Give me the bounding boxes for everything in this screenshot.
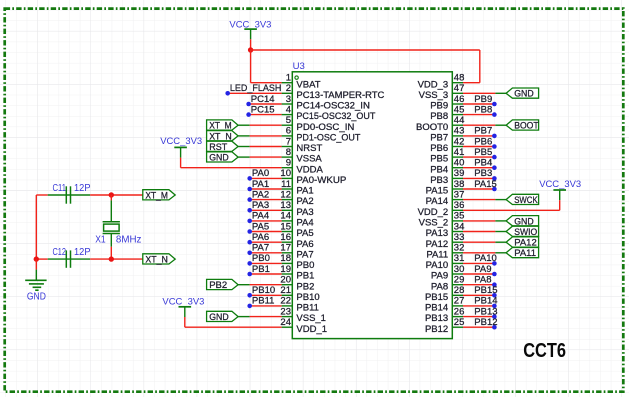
svg-text:43: 43 xyxy=(454,126,465,137)
U3 pin 23 VSS_1 xyxy=(280,306,326,324)
svg-text:PB10: PB10 xyxy=(252,285,275,296)
svg-text:PA9: PA9 xyxy=(474,264,491,275)
svg-text:15: 15 xyxy=(280,221,291,232)
svg-text:PA4: PA4 xyxy=(296,218,313,229)
svg-text:PA10: PA10 xyxy=(474,253,497,264)
svg-text:7: 7 xyxy=(286,136,291,147)
svg-text:VCC_3V3: VCC_3V3 xyxy=(160,136,202,147)
net label PA3 (wire to U3) xyxy=(247,200,281,213)
wire port to U3 xyxy=(238,146,282,148)
svg-text:PA9: PA9 xyxy=(431,271,448,282)
svg-text:28: 28 xyxy=(454,285,465,296)
U3 pin 31 PA10 xyxy=(426,253,465,271)
port GND (VSS_2) xyxy=(506,216,538,228)
svg-text:48: 48 xyxy=(454,73,465,84)
svg-text:PA0-WKUP: PA0-WKUP xyxy=(296,175,346,186)
junction ground node xyxy=(34,256,39,261)
wire left vertical C11 to C12 xyxy=(35,195,37,259)
svg-text:PB7: PB7 xyxy=(474,126,492,137)
svg-text:PB5: PB5 xyxy=(430,154,448,165)
crystal X1 xyxy=(103,195,120,259)
svg-text:PA2: PA2 xyxy=(252,189,269,200)
net label PA15 (wire from U3) xyxy=(463,179,497,192)
svg-text:12P: 12P xyxy=(74,183,91,194)
svg-text:47: 47 xyxy=(454,83,465,94)
capacitor C11 xyxy=(48,186,90,203)
svg-text:PD0-OSC_IN: PD0-OSC_IN xyxy=(296,122,354,133)
svg-text:VDD_1: VDD_1 xyxy=(296,324,327,335)
svg-text:PB3: PB3 xyxy=(430,175,448,186)
svg-text:30: 30 xyxy=(454,264,465,275)
svg-text:42: 42 xyxy=(454,136,465,147)
svg-text:PB14: PB14 xyxy=(474,296,497,307)
svg-text:6: 6 xyxy=(286,126,291,137)
port PA11 xyxy=(506,248,538,260)
svg-text:LED_FLASH: LED_FLASH xyxy=(230,83,282,94)
wire C11 to XT_M junction xyxy=(90,194,143,196)
power VCC_3V3 xyxy=(539,179,581,200)
svg-text:PD1-OSC_OUT: PD1-OSC_OUT xyxy=(296,133,360,144)
svg-text:23: 23 xyxy=(280,306,291,317)
svg-text:PB7: PB7 xyxy=(430,133,448,144)
svg-text:PA2: PA2 xyxy=(296,196,313,207)
port GND (VSS_1) xyxy=(207,311,239,323)
svg-text:PC14-OSC32_IN: PC14-OSC32_IN xyxy=(296,101,370,112)
port GND (VSS_3) xyxy=(506,88,538,100)
U3 pin 19 PB1 xyxy=(280,264,314,282)
svg-text:X1: X1 xyxy=(95,234,106,245)
svg-text:29: 29 xyxy=(454,275,465,286)
svg-text:CCT6: CCT6 xyxy=(523,338,566,361)
U3 pin 39 PB3 xyxy=(430,168,464,186)
net label PB4 (wire from U3) xyxy=(463,158,497,171)
wire U3 to port xyxy=(463,199,506,201)
port XT_M xyxy=(207,120,239,132)
net label PB11 (wire to U3) xyxy=(247,296,281,309)
U3 pin 4 PC15-OSC32_OUT xyxy=(282,104,376,122)
U3 pin 16 PA6 xyxy=(280,232,313,250)
svg-text:VDD_2: VDD_2 xyxy=(418,207,449,218)
svg-text:PA11: PA11 xyxy=(514,248,536,259)
svg-text:PB1: PB1 xyxy=(252,264,270,275)
U3 pin 2 PC13-TAMPER-RTC xyxy=(282,83,385,101)
net label PB9 (wire from U3) xyxy=(463,94,497,106)
net label PB0 (wire to U3) xyxy=(247,253,281,266)
U3 pin 44 BOOT0 xyxy=(416,115,464,133)
port PB2 xyxy=(207,279,239,291)
svg-text:8: 8 xyxy=(286,147,291,158)
U3 pin 46 PB9 xyxy=(430,94,464,112)
wire to pin 1 stub xyxy=(251,82,282,84)
net label LED_FLASH (wire to U3) xyxy=(225,83,281,96)
svg-text:46: 46 xyxy=(454,94,465,105)
net label PB5 (wire from U3) xyxy=(463,147,497,160)
wire left to C12 xyxy=(36,258,47,260)
svg-text:U3: U3 xyxy=(293,61,305,72)
U3 pin 32 PA11 xyxy=(426,243,464,261)
svg-text:PA10: PA10 xyxy=(426,260,449,271)
svg-text:PA3: PA3 xyxy=(296,207,313,218)
U3 pin 38 PA15 xyxy=(426,179,465,197)
svg-text:PB0: PB0 xyxy=(252,253,270,264)
U3 pin 8 VSSA xyxy=(282,147,323,165)
U3 pin 36 VDD_2 xyxy=(418,200,465,218)
net label PA9 (wire from U3) xyxy=(463,264,497,277)
svg-text:PA7: PA7 xyxy=(252,243,269,254)
net label PB13 (wire from U3) xyxy=(463,306,498,319)
svg-text:20: 20 xyxy=(280,275,291,286)
svg-text:1: 1 xyxy=(286,73,291,84)
ground GND symbol xyxy=(25,259,46,290)
svg-text:PB13: PB13 xyxy=(425,313,448,324)
svg-text:PB5: PB5 xyxy=(474,147,492,158)
svg-text:PB1: PB1 xyxy=(296,271,314,282)
svg-text:PB13: PB13 xyxy=(474,306,497,317)
U3 pin 24 VDD_1 xyxy=(280,317,327,335)
svg-text:PA8: PA8 xyxy=(431,281,448,292)
net label PC14 (wire to U3) xyxy=(246,94,281,106)
wire U3 to port xyxy=(463,92,506,94)
U3 pin 48 VDD_3 xyxy=(418,73,465,91)
U3 pin 33 PA12 xyxy=(426,232,465,250)
svg-text:C12: C12 xyxy=(53,247,67,258)
U3 pin 42 PB6 xyxy=(430,136,464,154)
U3 pin 35 VSS_2 xyxy=(419,211,465,229)
junction bottom of X1 xyxy=(109,256,114,261)
port PA12 xyxy=(506,237,538,249)
svg-text:XT_N: XT_N xyxy=(145,255,168,266)
svg-text:PB9: PB9 xyxy=(474,94,492,105)
svg-text:PB2: PB2 xyxy=(296,281,314,292)
svg-text:VCC_3V3: VCC_3V3 xyxy=(162,297,204,308)
svg-text:45: 45 xyxy=(454,104,465,115)
net label PA8 (wire from U3) xyxy=(463,275,497,288)
svg-text:PB12: PB12 xyxy=(425,324,448,335)
svg-text:PA1: PA1 xyxy=(252,179,269,190)
svg-text:PC15: PC15 xyxy=(251,104,275,115)
port SWCK xyxy=(506,194,538,206)
port GND (VSSA) xyxy=(207,152,239,164)
svg-text:32: 32 xyxy=(454,243,465,254)
capacitor C12 xyxy=(48,250,90,267)
junction top of X1 xyxy=(109,192,114,197)
U3 pin 26 PB13 xyxy=(425,306,464,324)
wire port to U3 xyxy=(238,316,282,318)
junction VCC_3V3 xyxy=(248,47,253,52)
U3 pin 25 PB12 xyxy=(425,317,464,335)
svg-text:17: 17 xyxy=(280,243,291,254)
svg-text:12P: 12P xyxy=(74,247,91,258)
svg-text:8MHz: 8MHz xyxy=(116,234,141,245)
svg-text:PA12: PA12 xyxy=(426,239,449,250)
svg-text:GND: GND xyxy=(209,153,229,164)
svg-text:VBAT: VBAT xyxy=(296,79,320,90)
svg-text:PA7: PA7 xyxy=(296,249,313,260)
svg-text:PC15-OSC32_OUT: PC15-OSC32_OUT xyxy=(296,111,375,122)
U3 pin 41 PB5 xyxy=(430,147,464,165)
svg-text:PB11: PB11 xyxy=(296,303,319,314)
svg-text:12: 12 xyxy=(280,189,291,200)
svg-text:PB4: PB4 xyxy=(430,164,448,175)
svg-text:VSS_1: VSS_1 xyxy=(296,313,326,324)
U3 pin 15 PA5 xyxy=(280,221,313,239)
net label PB10 (wire to U3) xyxy=(247,285,281,298)
wire U3 to port xyxy=(463,241,506,243)
svg-text:VDDA: VDDA xyxy=(296,164,323,175)
net label PA0 (wire to U3) xyxy=(247,168,281,181)
net label PA5 (wire to U3) xyxy=(247,221,281,234)
U3 pin 14 PA4 xyxy=(280,211,313,229)
svg-text:PB4: PB4 xyxy=(474,158,492,169)
U3 pin 20 PB2 xyxy=(280,275,314,293)
U3 pin 27 PB14 xyxy=(425,296,464,314)
port XT_M (crystal) xyxy=(143,190,175,202)
U3 pin 13 PA3 xyxy=(280,200,313,218)
wire U3 to port xyxy=(463,220,506,222)
svg-text:25: 25 xyxy=(454,317,465,328)
svg-text:PA1: PA1 xyxy=(296,186,313,197)
wire to pin 48 stub xyxy=(463,82,480,84)
net label PC15 (wire to U3) xyxy=(246,104,281,116)
svg-text:PB9: PB9 xyxy=(430,101,448,112)
svg-text:21: 21 xyxy=(280,285,291,296)
svg-text:PA14: PA14 xyxy=(426,196,449,207)
svg-text:2: 2 xyxy=(286,83,291,94)
svg-text:27: 27 xyxy=(454,296,465,307)
net label PB8 (wire from U3) xyxy=(463,104,497,116)
U3 pin 47 VSS_3 xyxy=(419,83,465,101)
svg-text:34: 34 xyxy=(454,221,465,232)
power VCC_3V3 xyxy=(229,20,271,40)
svg-text:PB11: PB11 xyxy=(252,296,275,307)
svg-text:14: 14 xyxy=(280,211,291,222)
wire down to pin 1 xyxy=(250,50,252,83)
svg-text:39: 39 xyxy=(454,168,465,179)
svg-text:VCC_3V3: VCC_3V3 xyxy=(539,179,581,190)
U3 pin 34 PA13 xyxy=(426,221,465,239)
svg-text:PB3: PB3 xyxy=(474,168,492,179)
svg-text:PB15: PB15 xyxy=(474,285,497,296)
X1 designator and value 8MHz xyxy=(95,234,141,245)
svg-text:PB12: PB12 xyxy=(474,317,497,328)
net label PA7 (wire to U3) xyxy=(247,243,281,256)
svg-text:18: 18 xyxy=(280,253,291,264)
svg-text:40: 40 xyxy=(454,158,465,169)
svg-text:PA13: PA13 xyxy=(426,228,449,239)
svg-text:BOOT: BOOT xyxy=(514,121,539,132)
svg-text:PB6: PB6 xyxy=(474,136,492,147)
wire VCC_3V3 top horizontal xyxy=(251,49,480,51)
svg-text:PB0: PB0 xyxy=(296,260,314,271)
wire port to U3 xyxy=(238,284,282,286)
svg-text:VSS_2: VSS_2 xyxy=(419,218,449,229)
svg-text:9: 9 xyxy=(286,158,291,169)
svg-text:16: 16 xyxy=(280,232,291,243)
wire VCC_3V3 to VDD_1 pin 24 xyxy=(185,317,282,327)
net label PA6 (wire to U3) xyxy=(247,232,281,245)
U3 pin 6 PD1-OSC_OUT xyxy=(282,126,361,144)
C12 designator and value 12P xyxy=(53,247,91,258)
svg-text:SWCK: SWCK xyxy=(514,195,538,206)
C11 designator and value 12P xyxy=(53,183,91,194)
U3 pin 30 PA9 xyxy=(431,264,464,282)
svg-text:26: 26 xyxy=(454,306,465,317)
port XT_N (crystal) xyxy=(143,254,175,266)
net label PA10 (wire from U3) xyxy=(463,253,497,266)
svg-text:VSSA: VSSA xyxy=(296,154,322,165)
svg-text:PC13-TAMPER-RTC: PC13-TAMPER-RTC xyxy=(296,90,384,101)
svg-text:22: 22 xyxy=(280,296,291,307)
svg-text:PB6: PB6 xyxy=(430,143,448,154)
svg-text:GND: GND xyxy=(514,89,534,100)
svg-text:PB14: PB14 xyxy=(425,303,448,314)
svg-text:GND: GND xyxy=(209,312,229,323)
svg-text:BOOT0: BOOT0 xyxy=(416,122,448,133)
svg-text:PB8: PB8 xyxy=(430,111,448,122)
svg-text:44: 44 xyxy=(454,115,465,126)
U3 pin 9 VDDA xyxy=(282,158,324,176)
net label PA4 (wire to U3) xyxy=(247,211,281,224)
U3 pin 37 PA14 xyxy=(426,189,465,207)
svg-text:PA4: PA4 xyxy=(252,211,269,222)
svg-text:33: 33 xyxy=(454,232,465,243)
svg-text:XT_M: XT_M xyxy=(145,190,168,201)
U3 pin 11 PA1 xyxy=(281,179,314,197)
svg-text:PA5: PA5 xyxy=(296,228,313,239)
net label PB1 (wire to U3) xyxy=(247,264,281,277)
svg-text:PB2: PB2 xyxy=(209,280,227,291)
wire VCC_3V3 to VDDA pin 9 xyxy=(181,158,282,168)
svg-text:35: 35 xyxy=(454,211,465,222)
U3 pin 1 VBAT xyxy=(282,73,321,91)
svg-text:VDD_3: VDD_3 xyxy=(418,79,449,90)
svg-text:38: 38 xyxy=(454,179,465,190)
net label PB6 (wire from U3) xyxy=(463,136,497,149)
wire U3 to port xyxy=(463,231,506,233)
svg-text:41: 41 xyxy=(454,147,465,158)
svg-text:5: 5 xyxy=(286,115,291,126)
svg-text:PB8: PB8 xyxy=(474,104,492,115)
svg-text:13: 13 xyxy=(280,200,291,211)
U3 pin 28 PB15 xyxy=(425,285,464,303)
wire VCC_3V3 stem xyxy=(250,39,252,50)
U3 pin 5 PD0-OSC_IN xyxy=(282,115,355,133)
svg-text:19: 19 xyxy=(280,264,291,275)
wire C12 to XT_N junction xyxy=(90,258,143,260)
port SWIO xyxy=(506,226,538,238)
U3 pin 3 PC14-OSC32_IN xyxy=(282,94,370,112)
IC U3 xyxy=(292,72,452,339)
U3 pin 22 PB11 xyxy=(280,296,319,314)
U3 pin 45 PB8 xyxy=(430,104,464,122)
net label PB15 (wire from U3) xyxy=(463,285,498,298)
svg-text:PC14: PC14 xyxy=(251,94,275,105)
port BOOT xyxy=(506,120,539,132)
wire port to U3 xyxy=(238,124,282,126)
U3 pin 10 PA0-WKUP xyxy=(280,168,346,186)
wire down to pin 48 xyxy=(479,50,481,83)
U3 pin 18 PB0 xyxy=(280,253,314,271)
wire left to C11 xyxy=(36,194,47,196)
U3 pin 21 PB10 xyxy=(280,285,319,303)
svg-text:PA0: PA0 xyxy=(252,168,269,179)
svg-text:PA11: PA11 xyxy=(426,249,448,260)
port RST xyxy=(207,141,239,153)
port XT_N xyxy=(207,131,239,143)
svg-text:36: 36 xyxy=(454,200,465,211)
U3 pin 40 PB4 xyxy=(430,158,464,176)
U3 pin 29 PA8 xyxy=(431,275,464,293)
power VCC_3V3 xyxy=(160,136,202,157)
net label PB3 (wire from U3) xyxy=(463,168,497,181)
svg-text:VSS_3: VSS_3 xyxy=(419,90,449,101)
svg-text:PA3: PA3 xyxy=(252,200,269,211)
svg-text:C11: C11 xyxy=(53,183,67,194)
wire VCC_3V3 to VDD_2 pin 36 xyxy=(463,200,560,210)
svg-text:PB10: PB10 xyxy=(296,292,319,303)
svg-text:PA15: PA15 xyxy=(426,186,449,197)
svg-text:31: 31 xyxy=(454,253,465,264)
svg-text:37: 37 xyxy=(454,189,465,200)
svg-text:PA6: PA6 xyxy=(296,239,313,250)
svg-text:24: 24 xyxy=(280,317,291,328)
net label PA1 (wire to U3) xyxy=(247,179,281,192)
net label PB14 (wire from U3) xyxy=(463,296,498,309)
wire port to U3 xyxy=(238,156,282,158)
U3 pin 17 PA7 xyxy=(280,243,313,261)
net label PA2 (wire to U3) xyxy=(247,189,281,202)
U3 pin 12 PA2 xyxy=(280,189,313,207)
svg-text:PB15: PB15 xyxy=(425,292,448,303)
svg-text:PA6: PA6 xyxy=(252,232,269,243)
svg-text:4: 4 xyxy=(286,104,291,115)
svg-text:10: 10 xyxy=(280,168,291,179)
wire U3 to port xyxy=(463,124,506,126)
svg-text:GND: GND xyxy=(27,291,46,303)
net label PB12 (wire from U3) xyxy=(463,317,498,330)
wire U3 to port xyxy=(463,252,506,254)
svg-text:11: 11 xyxy=(281,179,291,190)
svg-text:PA8: PA8 xyxy=(474,275,491,286)
net label PB7 (wire from U3) xyxy=(463,126,497,139)
wire port to U3 xyxy=(238,135,282,137)
svg-text:PA15: PA15 xyxy=(474,179,497,190)
svg-text:PA5: PA5 xyxy=(252,221,269,232)
U3 pin 7 NRST xyxy=(282,136,323,154)
svg-text:3: 3 xyxy=(286,94,291,105)
U3 pin 43 PB7 xyxy=(430,126,464,144)
power VCC_3V3 xyxy=(162,297,204,318)
svg-text:NRST: NRST xyxy=(296,143,322,154)
